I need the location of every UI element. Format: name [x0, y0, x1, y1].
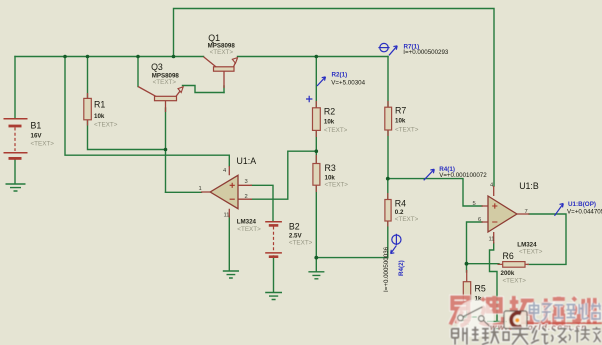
wire R6 right up to U1:B output	[528, 214, 566, 264]
wire B1 top column	[14, 57, 16, 119]
wire R1 top	[87, 57, 89, 100]
watermark row2 char 8 zhuan	[581, 327, 590, 341]
ground mid rail	[308, 272, 324, 279]
watermark logo square	[504, 311, 527, 329]
op-amp U1:B	[482, 186, 530, 244]
svg-text:<TEXT>: <TEXT>	[395, 216, 419, 223]
wire top loop from bus to U1:B pin4	[174, 9, 495, 187]
watermark row2 char 9 jia	[593, 327, 601, 342]
wire R2 top column	[315, 57, 317, 109]
wire R3 column	[315, 151, 317, 163]
svg-text:<TEXT>: <TEXT>	[289, 240, 313, 247]
wire Q3 base column down to U1:A output	[165, 108, 167, 192]
svg-text:<TEXT>: <TEXT>	[210, 49, 234, 56]
current probe R7(1)	[378, 43, 397, 55]
ground U1:A pin11	[223, 271, 239, 278]
wire R3 bottom to rail	[315, 185, 317, 258]
svg-text:LM324: LM324	[517, 242, 537, 249]
svg-text:U1:A: U1:A	[237, 156, 257, 166]
ground U1:B pin11	[487, 322, 507, 329]
ground R5	[457, 317, 477, 324]
svg-text:R7: R7	[395, 106, 406, 116]
svg-text:200k: 200k	[501, 270, 515, 277]
wire bottom rail with ground stub	[316, 258, 388, 272]
svg-text:11: 11	[224, 213, 230, 219]
watermark red underline	[521, 322, 602, 324]
wire R5 bottom to ground	[466, 301, 468, 317]
wire U1:A pin3 to B2 plus	[251, 185, 273, 221]
resistor R7	[385, 101, 392, 136]
watermark row2 char 7 ji	[569, 328, 580, 343]
svg-text:I=+0.000500036: I=+0.000500036	[383, 246, 390, 292]
wire node A branch: bus to U1:A pin4	[65, 57, 229, 167]
resistor R2	[313, 101, 321, 137]
wire U1:A pin2 feedback loop to R2/R3 node	[251, 151, 316, 199]
svg-text:R2: R2	[324, 107, 335, 117]
watermark big char 3 tuo	[510, 296, 534, 323]
wire B1 bottom to ground	[14, 159, 16, 184]
watermark blue char 2 zi	[542, 304, 551, 321]
watermark row2 char 1 she	[452, 328, 468, 345]
svg-text:R4(2): R4(2)	[398, 260, 405, 276]
resistor R1	[84, 93, 92, 126]
svg-text:<TEXT>: <TEXT>	[519, 249, 543, 256]
ground B1	[6, 184, 26, 191]
svg-text:10k: 10k	[395, 118, 406, 125]
svg-text:V=+5.00304: V=+5.00304	[331, 80, 365, 87]
op-amp U1:A	[201, 166, 252, 218]
svg-text:3: 3	[245, 179, 248, 185]
svg-text:5: 5	[473, 201, 476, 207]
svg-text:<TEXT>: <TEXT>	[237, 226, 261, 233]
resistor R3	[313, 155, 320, 192]
svg-text:Q1: Q1	[208, 33, 220, 43]
wire U1:B pin6 to feedback node	[467, 222, 483, 264]
svg-text:<TEXT>: <TEXT>	[94, 122, 118, 129]
svg-text:<TEXT>: <TEXT>	[153, 79, 177, 86]
wire main top bus	[15, 56, 204, 58]
svg-text:V=+0.000100072: V=+0.000100072	[439, 172, 487, 179]
watermark blue char 6 jie	[591, 303, 601, 319]
voltage probe R2(1)	[306, 77, 326, 102]
current probe R4(2)	[391, 234, 401, 254]
svg-text:I=+0.000500293: I=+0.000500293	[403, 49, 449, 56]
watermark row2 char 3 he	[491, 328, 509, 344]
svg-text:U1:B: U1:B	[519, 181, 539, 191]
svg-text:<TEXT>: <TEXT>	[325, 182, 349, 189]
watermark row2 char 5 xian	[531, 328, 548, 344]
svg-text:R1: R1	[94, 100, 105, 110]
wire B2 bottom to ground	[273, 256, 275, 292]
watermark blue char 1 dian	[530, 302, 540, 321]
svg-text:R5: R5	[475, 284, 486, 294]
svg-text:R3: R3	[325, 163, 336, 173]
svg-text:<TEXT>: <TEXT>	[503, 278, 527, 285]
watermark row2 char 6 she2	[551, 329, 566, 343]
svg-text:10k: 10k	[324, 119, 335, 126]
voltage probe R4(1)	[424, 169, 435, 180]
voltage probe U1:B(OP)	[555, 204, 564, 216]
transistor Q3	[138, 87, 183, 113]
ground B2	[265, 293, 282, 300]
wire U1:B pin11 zigzag to ground	[490, 243, 498, 321]
svg-text:LM324: LM324	[237, 219, 257, 226]
svg-text:<TEXT>: <TEXT>	[395, 127, 419, 134]
watermark switch disc	[456, 300, 495, 338]
svg-text:B1: B1	[31, 121, 42, 131]
wire R7 column	[387, 57, 389, 179]
wire R2 bottom to node	[315, 130, 317, 151]
watermark blue char 3 gong	[554, 305, 564, 318]
watermark blue char 5 shi	[579, 303, 588, 319]
resistor R5	[463, 270, 470, 307]
wire Q1 emitter to R7 corner	[238, 56, 389, 58]
watermark row2 char 4 tian	[511, 329, 529, 345]
resistor R6 (horizontal)	[498, 262, 530, 268]
watermark	[450, 296, 602, 345]
watermark blue char 4 cheng	[566, 305, 575, 318]
svg-text:R2(1): R2(1)	[332, 72, 348, 79]
watermark big char 2 di	[480, 296, 503, 325]
wire Q3 emitter to Q1 base	[183, 86, 225, 93]
wire Q1 base column	[223, 86, 225, 93]
svg-text:1: 1	[199, 186, 202, 192]
resistor R4	[385, 193, 391, 227]
wire R1 bottom to Q3 base node	[88, 120, 166, 150]
wire feedback node to R6 left	[467, 263, 500, 265]
svg-text:Q3: Q3	[151, 62, 163, 72]
svg-text:<TEXT>: <TEXT>	[31, 141, 55, 148]
svg-text:6: 6	[478, 217, 481, 223]
svg-text:B2: B2	[289, 222, 300, 232]
watermark big char 1 yi	[450, 298, 469, 326]
svg-text:<TEXT>: <TEXT>	[324, 127, 348, 134]
svg-text:R6: R6	[503, 251, 514, 261]
wire R4 column	[387, 179, 389, 258]
svg-text:V=+0.0447059: V=+0.0447059	[567, 208, 602, 215]
wire U1:A pin11 to ground	[228, 216, 230, 271]
watermark big char 4 pei	[541, 297, 565, 324]
svg-text:0.2: 0.2	[395, 209, 404, 216]
transistor Q1	[204, 57, 238, 88]
svg-text:10k: 10k	[325, 175, 336, 182]
svg-text:U1:B(OP): U1:B(OP)	[568, 201, 596, 208]
watermark row2 char 2 pin	[472, 327, 489, 345]
svg-text:2.5V: 2.5V	[289, 233, 303, 240]
wire R5 top	[466, 264, 468, 272]
battery B2	[265, 222, 282, 257]
svg-text:R4: R4	[395, 199, 406, 209]
wire R7/R4 node to U1:B pin5	[388, 179, 482, 206]
svg-text:7: 7	[525, 209, 528, 215]
svg-text:10k: 10k	[94, 113, 105, 120]
svg-text:11: 11	[489, 237, 495, 243]
svg-text:2: 2	[245, 194, 248, 200]
watermark big char 5 xun	[572, 298, 595, 325]
wire Q3 collector column	[137, 57, 139, 87]
battery B1	[4, 119, 28, 159]
svg-text:16V: 16V	[31, 133, 43, 140]
wire U1:A output to Q3 base column	[166, 191, 202, 193]
